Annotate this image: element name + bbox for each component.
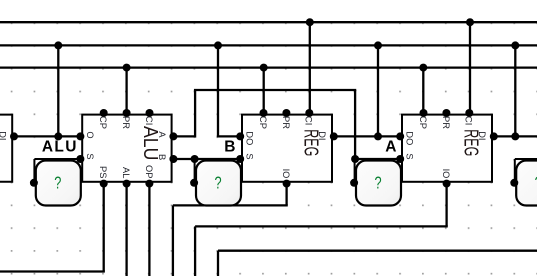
register REG B with label B xyxy=(224,109,338,188)
svg-text:CP: CP xyxy=(418,116,428,129)
wire bus2 (horizontal, y=45) xyxy=(0,44,537,46)
svg-text:DO: DO xyxy=(405,131,415,145)
wire bus2 down then right to DO pin of register B xyxy=(214,41,240,136)
svg-text:DO: DO xyxy=(245,131,255,145)
svg-text:?: ? xyxy=(374,173,381,193)
wire DI of left register to O pin of ALU U1 xyxy=(14,135,80,137)
wire bus2 down to DI net junction (right) xyxy=(511,41,519,140)
wire IO pin of register A down, left, down to bottom edge xyxy=(195,184,448,276)
wire bus3 (horizontal, y=68) xyxy=(0,66,537,68)
svg-text:S: S xyxy=(405,153,415,159)
svg-text:ALU: ALU xyxy=(42,139,77,156)
svg-text:S: S xyxy=(245,153,255,159)
wire bus2 down to DI-DO net junction (middle) xyxy=(374,41,382,140)
svg-text:PR: PR xyxy=(121,116,131,129)
svg-text:CP: CP xyxy=(98,116,108,129)
push button SW1 with green ? label and output wire to S pin xyxy=(30,159,81,206)
wire A-DI pin to right edge xyxy=(494,135,537,137)
svg-text:?: ? xyxy=(214,173,221,193)
svg-text:PR: PR xyxy=(281,116,291,129)
svg-text:IO: IO xyxy=(441,169,451,179)
svg-text:CI: CI xyxy=(464,116,474,125)
svg-text:PR: PR xyxy=(441,116,451,129)
wire OP pin of ALU down to bottom edge xyxy=(148,184,150,276)
svg-text:REG: REG xyxy=(300,129,323,156)
svg-text:AL: AL xyxy=(121,167,131,178)
wire bus3 to CP pin of register A xyxy=(419,64,427,113)
svg-text:O: O xyxy=(85,131,95,138)
wire IO pin of register B down, left, down to bottom edge xyxy=(173,184,288,276)
push button SW3 with green ? label and output wire to S pin xyxy=(350,159,401,206)
wire bottom bus from right edge, corner down to bottom edge xyxy=(218,251,537,276)
register REG (partial, left edge) with DI pin xyxy=(0,115,18,182)
svg-text:CP: CP xyxy=(258,116,268,129)
wire AL pin of ALU down to bottom edge xyxy=(125,184,127,276)
wire bus3 to CP pin of register B xyxy=(260,64,268,113)
svg-text:DI: DI xyxy=(0,131,7,140)
svg-text:PS: PS xyxy=(98,166,108,178)
wire bus1 to CI pin of register A, junction at top xyxy=(466,18,474,113)
svg-text:S: S xyxy=(85,153,95,159)
wire bus3 to PR pin of ALU U1 xyxy=(123,64,131,113)
wire ALU A output detour up over row3 to S pin of register A xyxy=(173,90,400,163)
svg-text:OP: OP xyxy=(144,165,154,178)
wire bus1 (top horizontal, y=22) xyxy=(0,21,537,23)
wire bus1 to CI pin of register B, junction at top xyxy=(306,18,314,113)
wire bus2 down to node on DI-O net (left), junctions both ends xyxy=(54,41,62,140)
svg-text:CI: CI xyxy=(144,116,154,125)
wire ALU B output to S pin of register B, junction at button pin riser xyxy=(173,155,240,163)
wire PS pin of ALU down and left to edge xyxy=(0,184,105,272)
push button SW2 with green ? label and output wire to S pin xyxy=(190,159,241,206)
op-amp ALU U1 (ALU block) with label ALU xyxy=(42,109,178,188)
svg-text:CI: CI xyxy=(304,116,314,125)
svg-text:IO: IO xyxy=(281,169,291,179)
svg-text:REG: REG xyxy=(460,129,483,156)
svg-text:?: ? xyxy=(54,173,61,193)
register REG A with label A xyxy=(385,109,498,188)
svg-text:B: B xyxy=(224,139,235,156)
svg-text:A: A xyxy=(385,139,396,156)
wire B-DI pin to A-DO pin xyxy=(334,135,400,137)
push button SW4 with green ? label and output wire to S pin xyxy=(510,159,537,206)
svg-text:ALU: ALU xyxy=(139,126,162,160)
